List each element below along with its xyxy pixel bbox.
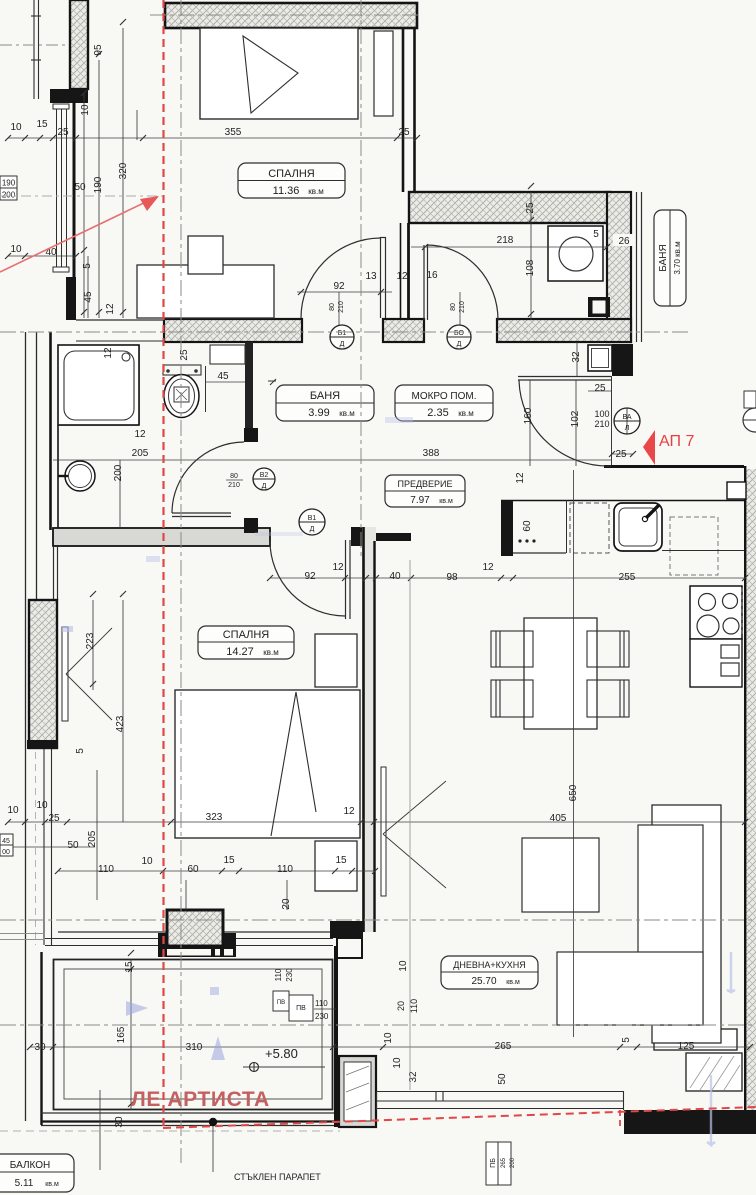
wall: mid band piece right (497, 319, 631, 342)
kitchen bottom counter (654, 1029, 737, 1050)
wall: thin sill lines left of band (76, 319, 164, 321)
svg-text:25: 25 (57, 127, 69, 138)
svg-text:45: 45 (83, 291, 94, 303)
door utility room (424, 245, 498, 320)
svg-text:5: 5 (593, 229, 599, 240)
svg-text:5.11: 5.11 (15, 1178, 34, 1189)
svg-text:10: 10 (141, 856, 153, 867)
wall: entry black pier (612, 344, 633, 376)
kitchen bottom island hatched (686, 1053, 742, 1091)
svg-text:10: 10 (10, 122, 22, 133)
svg-text:223: 223 (85, 632, 96, 649)
room label balcony (0, 1154, 74, 1192)
wall: living north-east wall line (604, 465, 744, 468)
wall: left inner face line (73, 100, 76, 320)
svg-text:ПВ: ПВ (277, 1000, 285, 1006)
svg-text:3.99: 3.99 (308, 407, 329, 419)
svg-text:230: 230 (315, 1012, 329, 1021)
svg-text:50: 50 (497, 1073, 508, 1085)
bathroom shower tray (58, 345, 139, 425)
wall: bedroom2 south black corner (330, 921, 363, 938)
svg-text:АП 7: АП 7 (659, 433, 694, 450)
neighbour bath partition lines (636, 192, 638, 342)
blue watermark triangle up (211, 1036, 225, 1060)
blue watermark triangle right (126, 1001, 148, 1016)
svg-text:10: 10 (7, 805, 19, 816)
svg-text:Д: Д (340, 341, 345, 348)
svg-text:218: 218 (497, 235, 514, 246)
desk bedroom1 (137, 265, 274, 318)
door symbol circle bathroom (226, 468, 275, 490)
coffee table (522, 838, 599, 912)
svg-text:25: 25 (594, 383, 606, 394)
wall: mid band piece center (383, 319, 424, 342)
svg-text:60: 60 (522, 520, 533, 532)
wall: top exterior band (165, 3, 417, 28)
nightstand lower (315, 841, 357, 891)
wall: shaft black block (588, 297, 610, 317)
svg-text:110: 110 (98, 864, 114, 875)
svg-text:210: 210 (228, 482, 240, 489)
svg-text:205: 205 (87, 830, 98, 847)
svg-text:355: 355 (225, 127, 242, 138)
door entry apartment (518, 377, 611, 467)
wall: bedroom2 south line (58, 931, 362, 933)
wall: utility room top band (409, 192, 610, 223)
svg-text:15: 15 (36, 119, 48, 130)
wall: balcony/living post line (334, 946, 338, 1127)
wall: balcony hatched pier (167, 910, 223, 946)
svg-text:230: 230 (285, 968, 294, 982)
wall: bedroom2/living partition (362, 527, 376, 932)
neighbour tag right edge (744, 391, 756, 408)
svg-text:5: 5 (621, 1037, 632, 1043)
svg-text:20: 20 (396, 1001, 406, 1011)
wall: left corner column (66, 277, 76, 320)
wall: south-east black band (624, 1110, 756, 1134)
room label hallway (385, 475, 465, 507)
svg-text:Д: Д (457, 341, 462, 348)
red leader arrow top-left (0, 200, 150, 272)
svg-text:СПАЛНЯ: СПАЛНЯ (268, 168, 315, 180)
wall: bathroom door top jamb (244, 428, 258, 442)
svg-text:205: 205 (132, 448, 149, 459)
svg-text:кв.м: кв.м (308, 187, 323, 196)
svg-text:25: 25 (398, 127, 410, 138)
wall: shaft white box (588, 345, 612, 371)
bed bedroom2 (175, 690, 360, 838)
svg-text:388: 388 (423, 448, 440, 459)
svg-text:80: 80 (450, 303, 457, 311)
svg-text:12: 12 (343, 806, 355, 817)
kitchen counter top edge (501, 500, 744, 502)
wall: right exterior hatched (745, 469, 756, 1112)
svg-text:125: 125 (678, 1041, 695, 1052)
kitchen counter left section (513, 552, 566, 554)
balcony: slab edges (41, 1112, 336, 1114)
blue watermark arrows right side (727, 952, 735, 992)
svg-text:15: 15 (335, 855, 347, 866)
svg-text:102: 102 (570, 410, 581, 427)
svg-text:165: 165 (116, 1026, 127, 1043)
svg-text:255: 255 (619, 572, 636, 583)
red dashed boundary vertical (162, 0, 164, 1128)
chairs (491, 631, 629, 717)
svg-text:98: 98 (446, 572, 458, 583)
svg-text:50: 50 (67, 840, 79, 851)
dim texts top/left (10, 44, 635, 583)
window: living south glass band (376, 1091, 624, 1110)
room label bath2 rotated (654, 210, 686, 306)
dining table (524, 618, 597, 729)
svg-text:ПВ: ПВ (296, 1005, 306, 1012)
svg-text:25.70: 25.70 (471, 976, 496, 987)
svg-text:80: 80 (230, 473, 238, 480)
red entry arrow AP7 (643, 430, 655, 465)
nightstand upper (315, 634, 357, 687)
svg-text:Д: Д (262, 483, 267, 490)
svg-text:45: 45 (2, 838, 10, 845)
window leaf living (381, 767, 386, 896)
svg-text:кв.м: кв.м (439, 498, 453, 505)
door symbol circle bedroom1 (329, 292, 354, 349)
svg-text:110: 110 (277, 864, 293, 875)
svg-text:190: 190 (2, 179, 16, 188)
svg-text:12: 12 (482, 562, 494, 573)
svg-text:100: 100 (594, 409, 609, 419)
svg-text:40: 40 (389, 571, 401, 582)
svg-text:10: 10 (383, 1032, 394, 1044)
room label living/kitchen (441, 956, 538, 989)
svg-text:15: 15 (223, 855, 235, 866)
wall: pier base black (158, 933, 236, 957)
wall: bedroom1 east wall double lines (402, 28, 405, 192)
svg-text:7.97: 7.97 (410, 495, 430, 506)
svg-text:кв.м: кв.м (45, 1181, 59, 1188)
svg-text:320: 320 (118, 162, 129, 179)
svg-text:10: 10 (392, 1057, 403, 1069)
svg-text:12: 12 (103, 347, 114, 359)
wall: entry door jamb edge (611, 376, 613, 466)
svg-text:12: 12 (332, 562, 344, 573)
svg-text:В1: В1 (308, 515, 317, 522)
wall: utility room right band (607, 192, 631, 342)
svg-text:190: 190 (93, 176, 104, 193)
svg-text:20: 20 (281, 898, 292, 910)
window tag boxes left edge (0, 176, 17, 188)
svg-text:200: 200 (510, 1157, 516, 1168)
svg-text:5: 5 (82, 263, 93, 269)
kitchen dashed fridge (670, 517, 718, 575)
svg-text:ПБ: ПБ (490, 1158, 497, 1168)
svg-text:92: 92 (304, 571, 316, 582)
window: top-left corner strip (31, 0, 41, 99)
door bedroom1 (301, 237, 386, 318)
svg-text:14.27: 14.27 (226, 646, 254, 658)
wall: balcony west thin double (43, 749, 45, 945)
dimension lines vertical (84, 28, 577, 1172)
svg-text:кв.м: кв.м (506, 979, 520, 986)
washing machine utility room (548, 226, 603, 281)
door symbol circle utility (447, 292, 471, 349)
bathroom wash basin (65, 461, 95, 491)
svg-text:+5.80: +5.80 (265, 1046, 298, 1061)
svg-text:16: 16 (426, 270, 438, 281)
svg-text:В2: В2 (260, 472, 269, 479)
svg-text:45: 45 (217, 371, 229, 382)
svg-text:Б1: Б1 (338, 330, 347, 337)
svg-text:210: 210 (594, 419, 609, 429)
svg-text:ВА: ВА (622, 414, 631, 421)
svg-text:110: 110 (274, 968, 283, 981)
svg-text:00: 00 (2, 849, 10, 856)
svg-text:12: 12 (105, 303, 116, 315)
svg-text:ДНЕВНА+КУХНЯ: ДНЕВНА+КУХНЯ (453, 960, 525, 970)
door symbol circle entry (614, 408, 640, 434)
wall: hallway south segment (366, 533, 411, 541)
door symbol circle bedroom2 (299, 509, 325, 535)
svg-text:2.35: 2.35 (427, 407, 448, 419)
bathroom vanity box (210, 345, 245, 364)
kitchen counter left black bar (501, 500, 513, 556)
door bedroom2 (270, 540, 350, 619)
kitchen sink (614, 503, 662, 551)
svg-text:30: 30 (34, 1042, 46, 1053)
svg-text:265: 265 (501, 1157, 507, 1168)
kitchen stove (690, 586, 742, 639)
red dashed boundary bottom slanted (163, 1107, 756, 1128)
wall: mid band piece left (164, 319, 302, 342)
svg-text:32: 32 (571, 351, 582, 363)
balcony: inner rectangle (54, 960, 333, 1110)
dim texts bedroom2 / living (7, 632, 694, 1127)
svg-text:13: 13 (365, 271, 377, 282)
label glass parapet (209, 1118, 217, 1126)
wall: left outer double lines (25, 332, 27, 1121)
svg-text:25: 25 (525, 202, 536, 214)
svg-text:СПАЛНЯ: СПАЛНЯ (223, 629, 270, 641)
dimension lines horizontal (0, 138, 750, 1047)
svg-text:СТЪКЛЕН ПАРАПЕТ: СТЪКЛЕН ПАРАПЕТ (234, 1172, 321, 1182)
svg-text:30: 30 (114, 1116, 125, 1128)
svg-text:10: 10 (398, 960, 409, 972)
svg-text:10: 10 (10, 244, 22, 255)
svg-text:25: 25 (48, 813, 60, 824)
svg-text:25: 25 (615, 449, 627, 460)
svg-text:12: 12 (134, 429, 146, 440)
svg-text:10: 10 (36, 800, 48, 811)
boiler box top right (727, 482, 746, 499)
svg-text:423: 423 (115, 715, 126, 732)
svg-text:200: 200 (2, 191, 16, 200)
thin leader line kitchen/living boundary (409, 560, 411, 1090)
svg-text:200: 200 (113, 464, 124, 481)
svg-text:265: 265 (495, 1041, 512, 1052)
wall: bathroom south band (53, 528, 270, 546)
svg-text:310: 310 (186, 1042, 203, 1053)
svg-text:кв.м: кв.м (458, 409, 473, 418)
svg-text:108: 108 (525, 259, 536, 276)
room label utility (395, 385, 493, 421)
bathroom toilet (163, 365, 201, 375)
wall: top-left hatched pier (70, 0, 88, 89)
svg-text:110: 110 (315, 999, 328, 1008)
svg-text:323: 323 (206, 812, 223, 823)
svg-text:БАНЯ: БАНЯ (310, 390, 340, 402)
svg-text:БО: БО (454, 330, 465, 337)
svg-text:60: 60 (187, 864, 199, 875)
svg-text:Л: Л (625, 425, 630, 432)
svg-text:95: 95 (93, 44, 104, 56)
svg-text:3.70 кв.м: 3.70 кв.м (673, 241, 682, 274)
room label bath (268, 379, 374, 421)
svg-text:10: 10 (80, 104, 91, 116)
svg-text:110: 110 (409, 999, 419, 1013)
wall: bedroom2 west hatched (29, 600, 57, 748)
svg-text:МОКРО ПОМ.: МОКРО ПОМ. (411, 391, 476, 402)
balcony: outer west edge (40, 952, 42, 1125)
wall: bathroom / toilet divider black bar (245, 342, 253, 442)
svg-text:Д: Д (310, 526, 315, 533)
svg-text:11.36: 11.36 (273, 185, 300, 197)
svg-text:50: 50 (74, 182, 86, 193)
window: bedroom1 left window (53, 104, 69, 272)
svg-text:92: 92 (333, 281, 345, 292)
svg-text:12: 12 (396, 271, 408, 282)
svg-text:160: 160 (523, 407, 534, 424)
kitchen dashed appliance (570, 503, 609, 553)
door bathroom (172, 442, 244, 517)
svg-text:ЛЕ АРТИСТА: ЛЕ АРТИСТА (131, 1088, 270, 1111)
room label bedroom2 (198, 626, 294, 659)
svg-text:БАЛКОН: БАЛКОН (10, 1160, 51, 1171)
column: glass parapet post (339, 1056, 376, 1127)
window leaf bedroom2 (62, 627, 68, 721)
svg-text:15: 15 (124, 961, 135, 973)
wall: bathroom west face (49, 332, 52, 530)
svg-text:БАНЯ: БАНЯ (658, 244, 669, 271)
svg-text:ПРЕДВЕРИЕ: ПРЕДВЕРИЕ (397, 479, 452, 489)
wall: bedroom2 east pier (351, 527, 366, 546)
svg-text:80: 80 (329, 303, 336, 311)
svg-text:12: 12 (515, 472, 526, 484)
wall: top-left black elbow (50, 89, 88, 103)
svg-text:кв.м: кв.м (263, 648, 278, 657)
svg-text:650: 650 (568, 784, 579, 801)
sofa (652, 805, 721, 1043)
window: bedroom2/balcony sill lines (45, 938, 158, 940)
svg-text:кв.м: кв.м (339, 409, 354, 418)
svg-text:26: 26 (618, 236, 630, 247)
room label bedroom1 (238, 163, 345, 198)
bed bedroom1 (200, 28, 358, 119)
window tag box bottom (486, 1142, 498, 1185)
svg-text:5: 5 (75, 748, 86, 754)
blue watermark square (210, 987, 219, 995)
kitchen lower cabinet (690, 639, 742, 687)
svg-text:405: 405 (550, 813, 567, 824)
